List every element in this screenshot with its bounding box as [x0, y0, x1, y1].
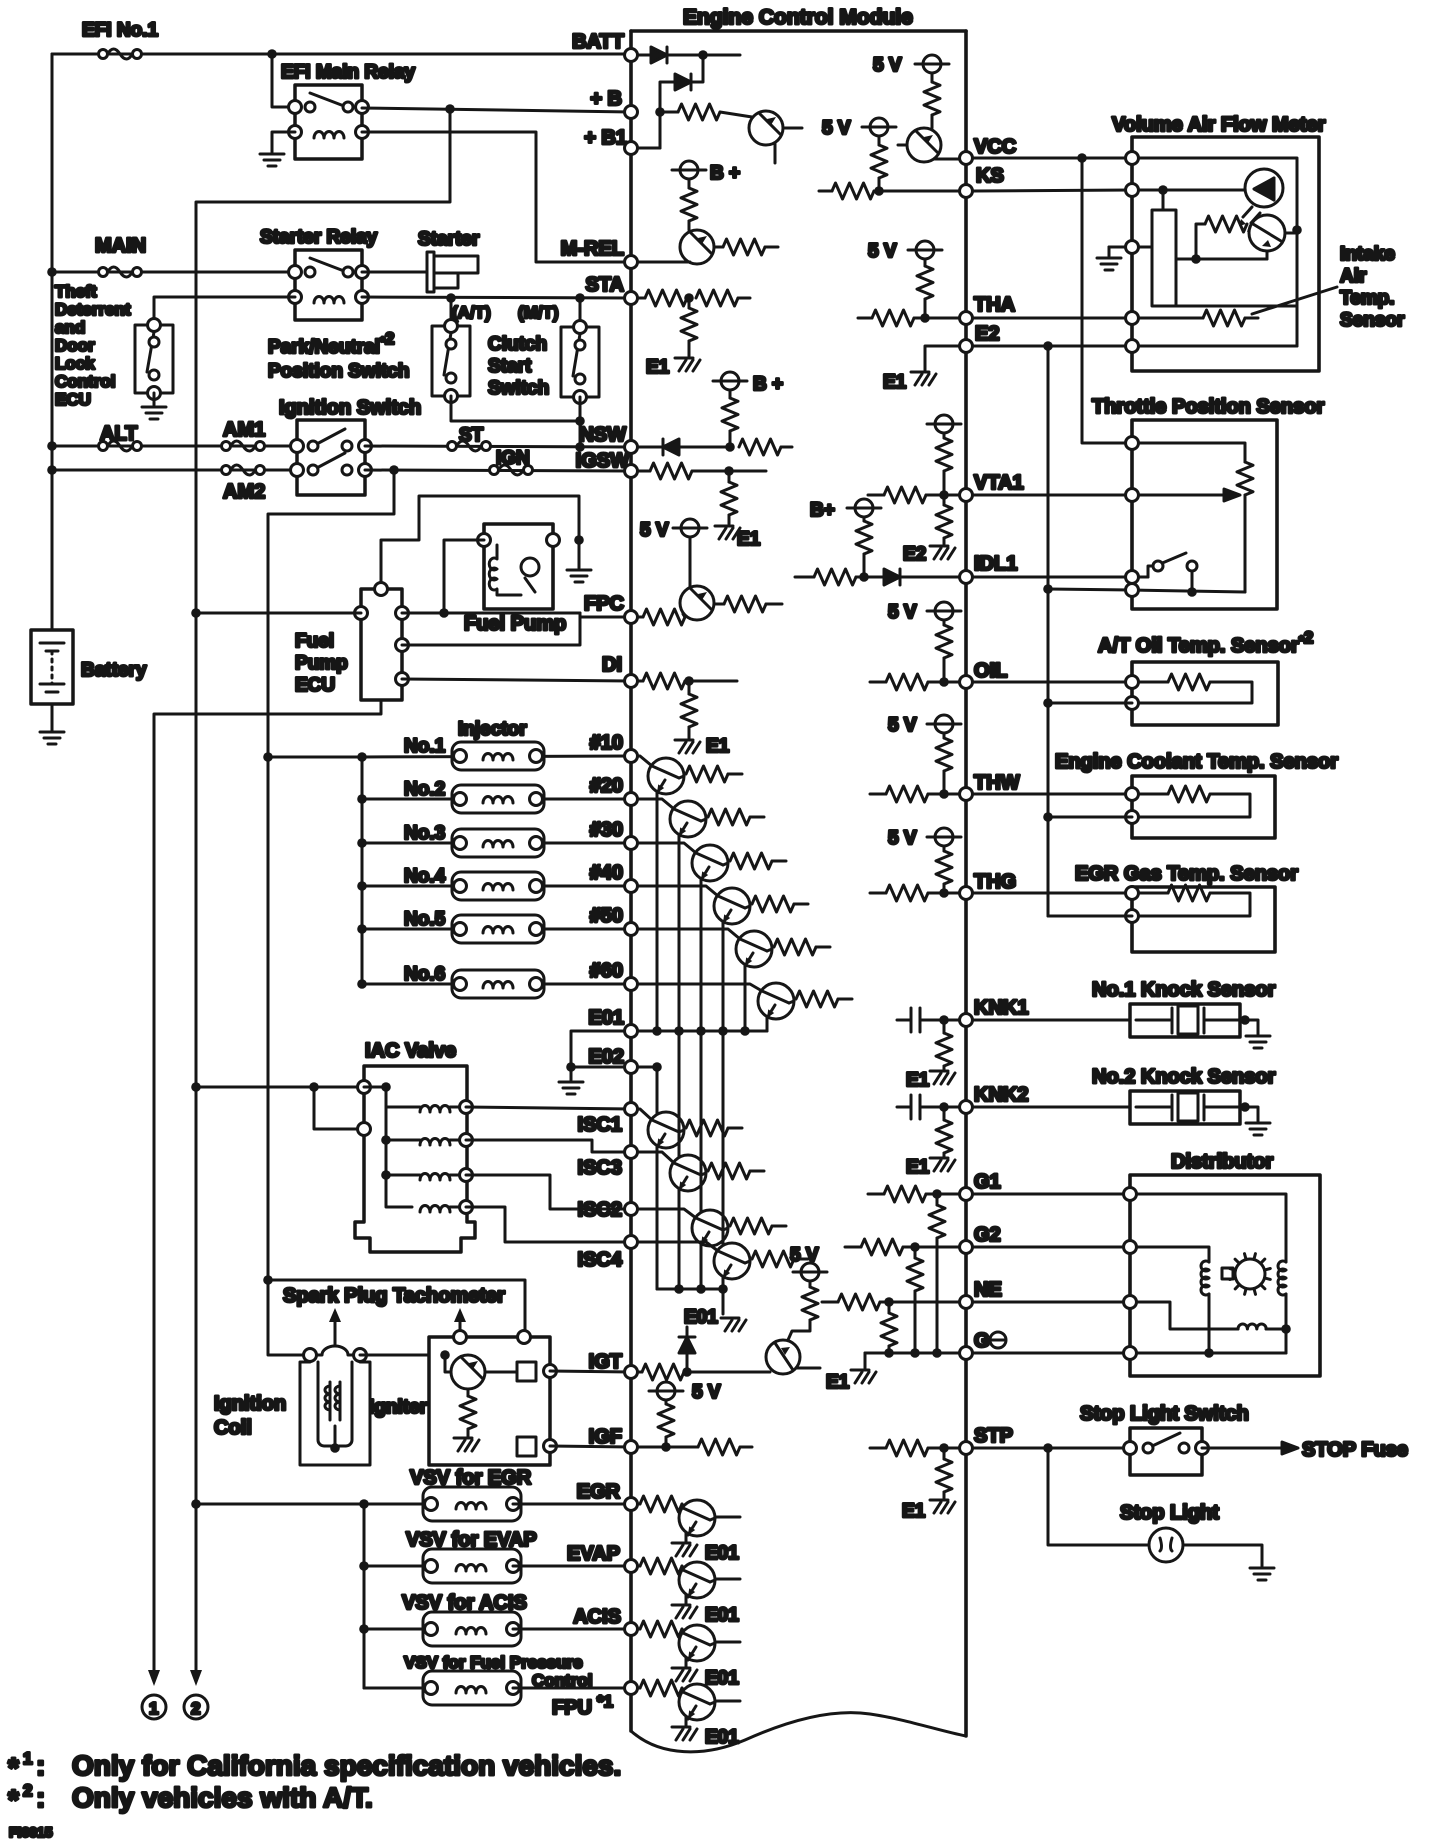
ground knock sensor 2: [1246, 1123, 1270, 1135]
Fuel Pump ECU: [295, 583, 409, 701]
transistor ISC3 driver: [638, 1152, 674, 1163]
wire coolant sensor ground: [1048, 816, 1132, 819]
svg-text:Only for California specificat: Only for California specification vehicl…: [72, 1750, 621, 1781]
wire IAC second pin feed: [314, 1087, 364, 1129]
NE pickup coil bottom: [1238, 1324, 1266, 1329]
svg-text:E1: E1: [906, 1157, 930, 1178]
fuse EFI No.1: [99, 49, 142, 59]
svg-text:(M/T): (M/T): [518, 303, 559, 322]
wire G- row with dividers: [865, 1352, 959, 1355]
injector No.3: [357, 838, 367, 848]
svg-text:NE: NE: [974, 1279, 1002, 1301]
ground E1 (DI): [675, 740, 700, 753]
svg-text:#20: #20: [590, 775, 623, 797]
switch park/neutral: [432, 320, 470, 403]
LED karman sensor: [1245, 169, 1283, 207]
fuse ALT: [99, 441, 142, 451]
svg-text:and: and: [55, 318, 85, 337]
IGT input resistor: [638, 1371, 642, 1374]
node junction IGSW drop: [389, 465, 399, 475]
wire FPC row: [402, 613, 631, 617]
svg-text:Deterrent: Deterrent: [55, 300, 131, 319]
wire EGR VSV feed: [196, 1503, 431, 1506]
transistor injector driver No.5: [638, 929, 740, 939]
svg-text:+ B1: + B1: [584, 127, 627, 149]
svg-text:Sensor: Sensor: [1340, 310, 1405, 331]
svg-text:No.3: No.3: [404, 823, 445, 844]
Starter Relay: [260, 227, 378, 320]
svg-text:B+: B+: [810, 500, 835, 521]
wire G2 row: [973, 1246, 1130, 1249]
node junction STA / clutch: [575, 293, 585, 303]
svg-text:Fuel: Fuel: [295, 631, 334, 652]
NE row resistor: [822, 1301, 838, 1304]
svg-text:AM1: AM1: [223, 419, 265, 441]
svg-text:FPC: FPC: [584, 593, 624, 615]
divider to E2 ground: [943, 495, 946, 505]
svg-text:Temp.: Temp.: [1340, 288, 1395, 309]
Ignition Coil: [214, 1346, 370, 1465]
wire VSV distribution bus: [363, 1504, 366, 1688]
DI input resistor: [638, 680, 643, 683]
svg-text:No.5: No.5: [404, 909, 446, 930]
svg-text:VSV for Fuel Pressure: VSV for Fuel Pressure: [404, 1653, 583, 1672]
svg-text:#60: #60: [590, 960, 623, 982]
svg-text:BATT: BATT: [572, 31, 624, 53]
wire KS row: [973, 190, 1132, 191]
svg-text:B +: B +: [710, 163, 740, 184]
node junction STA / park-neutral: [446, 293, 456, 303]
svg-text:AM2: AM2: [223, 481, 265, 503]
svg-text:B +: B +: [753, 374, 783, 395]
svg-text:KS: KS: [976, 165, 1004, 187]
transistor injector driver No.1: [638, 756, 652, 766]
Volume Air Flow Meter: [1097, 114, 1326, 371]
wire ECU bottom to drop bus no.1: [154, 700, 381, 1670]
wire ISC emitter rail: [657, 1288, 723, 1291]
svg-text:*: *: [8, 1784, 19, 1815]
wire ALT row: [52, 445, 297, 448]
Engine Coolant Temp. Sensor: [1055, 751, 1338, 838]
wire E01 rail: [638, 1030, 767, 1033]
svg-text:VCC: VCC: [974, 136, 1016, 158]
power 5V (VTA1 pullup): [927, 415, 961, 433]
IAC Valve: [355, 1040, 475, 1252]
svg-text:E01: E01: [684, 1307, 718, 1328]
svg-text:Volume Air Flow Meter: Volume Air Flow Meter: [1112, 114, 1326, 136]
ground E1 (G-): [851, 1370, 876, 1383]
wire relay coil to ground: [272, 132, 295, 152]
ground theft ECU: [142, 407, 166, 419]
svg-text:Throttle Position Sensor: Throttle Position Sensor: [1092, 396, 1324, 418]
svg-text:ISC1: ISC1: [578, 1114, 622, 1136]
svg-text:E02: E02: [588, 1046, 624, 1068]
svg-text:STA: STA: [585, 274, 624, 296]
svg-text:1: 1: [149, 1699, 158, 1718]
svg-text:ECU: ECU: [55, 390, 91, 409]
svg-text:ECU: ECU: [295, 675, 335, 696]
wire drop bus no.2 (to circled 2): [196, 109, 450, 1670]
wire EFI No.1 feed (top rail to BATT): [52, 53, 631, 56]
svg-text:Only vehicles with A/T.: Only vehicles with A/T.: [72, 1782, 373, 1813]
wire injector distribution bus: [361, 757, 364, 984]
arrow to circled 1: [148, 1670, 160, 1686]
svg-text:(A/T): (A/T): [452, 303, 491, 322]
tachometer arrow: [459, 1318, 462, 1331]
wire AM2 row: [52, 469, 297, 472]
wire EGR gas sensor ground: [1048, 915, 1132, 918]
svg-text:E01: E01: [705, 1605, 739, 1626]
transistor injector driver No.2: [638, 799, 674, 809]
wire igniter feed: [268, 1280, 525, 1337]
wire fuel pump ground stem: [578, 540, 581, 568]
wire fuel pump left pin to FPC row: [444, 540, 484, 613]
svg-text:Lock: Lock: [55, 354, 95, 373]
transistor EGR driver: [638, 1503, 640, 1506]
Engine Control Module box: [631, 31, 966, 1736]
wire TPS ground: [1048, 589, 1132, 590]
wire E2 to internal ground: [925, 346, 959, 370]
svg-text:Starter Relay: Starter Relay: [260, 227, 378, 248]
svg-text:THG: THG: [974, 871, 1016, 893]
phototransistor: [1249, 215, 1285, 251]
THG row resistor: [870, 892, 886, 895]
wire relay coil to M-REL: [362, 132, 631, 262]
svg-text:Starter: Starter: [418, 229, 480, 250]
VTA1 row resistor: [868, 494, 884, 497]
wire relay output to +B pin: [362, 108, 631, 112]
wire IDL1 row: [973, 576, 1148, 579]
VSV for EVAP: [359, 1561, 369, 1571]
svg-text:*: *: [8, 1752, 19, 1783]
Distributor: [1124, 1151, 1321, 1376]
svg-text:OIL: OIL: [974, 660, 1007, 682]
Igniter: [369, 1331, 557, 1466]
STA input: resistor, divider: [638, 297, 645, 300]
No.2 Knock Sensor: [1092, 1066, 1276, 1124]
svg-text:E1: E1: [883, 372, 907, 393]
resistor +B base: [660, 111, 678, 114]
ground stop light: [1250, 1568, 1274, 1580]
wire STA to clutch switch: [579, 298, 582, 327]
KS row resistor: [819, 190, 832, 193]
wire ECU mid pin: [402, 613, 580, 645]
transistor injector driver No.6: [638, 984, 762, 991]
svg-text:+ B: + B: [590, 88, 622, 110]
svg-text:Engine Coolant Temp. Sensor: Engine Coolant Temp. Sensor: [1055, 751, 1338, 773]
svg-text:5 V: 5 V: [873, 55, 902, 76]
svg-text:EFI No.1: EFI No.1: [82, 20, 158, 41]
svg-text:NSW: NSW: [579, 424, 626, 446]
svg-text:2: 2: [23, 1781, 32, 1800]
wire MAIN row: [52, 271, 295, 274]
svg-text:KNK1: KNK1: [974, 997, 1028, 1019]
EFI Main Relay: [281, 62, 416, 159]
svg-text:No.1 Knock Sensor: No.1 Knock Sensor: [1092, 979, 1276, 1001]
svg-text::: :: [36, 1750, 45, 1781]
svg-text:Ignition: Ignition: [214, 1393, 286, 1415]
wire fuel pump ECU feed from bus 2: [196, 612, 361, 615]
VSV for Fuel Pressure Control: [364, 1687, 431, 1690]
node junction +B feed / left drop bus: [445, 104, 455, 114]
svg-text:Fuel Pump: Fuel Pump: [464, 613, 566, 635]
svg-text:#30: #30: [590, 819, 623, 841]
A/T Oil Temp. Sensor: [1098, 628, 1313, 725]
IDL1 row resistor + diode: [795, 576, 814, 579]
injector No.4: [357, 881, 367, 891]
svg-text:E1: E1: [706, 736, 730, 757]
wire OIL row: [973, 681, 1132, 684]
injector No.2: [357, 794, 367, 804]
transistor ISC1 driver: [638, 1109, 652, 1120]
reluctor star wheel: [1222, 1268, 1233, 1279]
arrow to circled 2: [190, 1670, 202, 1686]
svg-text:*1: *1: [597, 1692, 613, 1711]
fuse AM1: [222, 441, 265, 451]
svg-text:5 V: 5 V: [640, 520, 669, 541]
switch clutch start: [561, 321, 599, 404]
fuse ST: [448, 441, 491, 451]
wire STA row from relay coil: [362, 297, 631, 298]
Stop Light lamp: [1120, 1502, 1219, 1562]
NSW diode (points left): [638, 446, 663, 449]
power B+ (M-REL driver): [672, 161, 706, 179]
wire G- row: [973, 1352, 1130, 1355]
wire VCC drop to TPS: [1082, 158, 1132, 443]
svg-text:Igniter: Igniter: [369, 1397, 428, 1418]
svg-text:Air: Air: [1340, 266, 1367, 287]
wire IGT: [550, 1371, 631, 1372]
wire G1 row: [973, 1193, 1130, 1196]
svg-text::: :: [36, 1782, 45, 1813]
svg-text:E2: E2: [975, 323, 999, 345]
ECM internals: BATT diode 1: [638, 54, 651, 57]
svg-text:Stop Light Switch: Stop Light Switch: [1080, 1403, 1249, 1425]
Stop Light Switch: [1080, 1403, 1249, 1475]
transistor injector driver No.4: [638, 886, 718, 896]
svg-text:Control: Control: [55, 372, 115, 391]
ground E1 (KNK2): [930, 1158, 955, 1171]
node +B junction: [655, 107, 665, 117]
ground E1 (KNK1): [930, 1071, 955, 1084]
svg-text:5 V: 5 V: [888, 828, 917, 849]
svg-text:1: 1: [23, 1749, 32, 1768]
svg-text:E1: E1: [737, 529, 761, 550]
svg-text:G: G: [974, 1330, 990, 1352]
svg-text:M-REL: M-REL: [561, 238, 624, 260]
svg-text:DI: DI: [602, 654, 622, 676]
battery: [31, 630, 147, 732]
transistor VCC regulator: [907, 128, 941, 162]
wire ignition coil to igniter: [360, 1354, 429, 1357]
svg-text:IAC Valve: IAC Valve: [365, 1040, 456, 1062]
svg-text:No.6: No.6: [404, 964, 445, 985]
svg-text:Switch: Switch: [488, 378, 549, 399]
svg-text:Start: Start: [488, 356, 532, 377]
wire NE row: [973, 1301, 1130, 1304]
wire A/T oil sensor ground: [1048, 702, 1132, 705]
IGF row resistor: [638, 1446, 698, 1449]
wire THA row: [973, 317, 1132, 320]
node junction igniter feed: [263, 1275, 273, 1285]
wire starter relay coil left to theft ECU: [154, 297, 295, 325]
svg-text:EVAP: EVAP: [567, 1543, 620, 1565]
svg-text:Battery: Battery: [81, 660, 147, 681]
svg-text:E01: E01: [588, 1007, 624, 1029]
resistor intake air temp sensor: [1203, 310, 1245, 326]
svg-text:ISC2: ISC2: [578, 1199, 622, 1221]
svg-text:No.2: No.2: [404, 779, 445, 800]
svg-text:E01: E01: [705, 1543, 739, 1564]
svg-text:E1: E1: [826, 1372, 850, 1393]
svg-text:Injector: Injector: [458, 719, 527, 740]
wire ISC2: [466, 1175, 631, 1209]
No.1 Knock Sensor: [1092, 979, 1276, 1037]
wire E2 sensor-ground bus: [1047, 346, 1050, 916]
wire THG row: [973, 892, 1132, 895]
svg-text:2: 2: [191, 1699, 200, 1718]
svg-text:Pump: Pump: [295, 653, 348, 674]
transistor IGT driver: [766, 1340, 800, 1374]
wire IGF: [550, 1446, 631, 1447]
svg-text:5 V: 5 V: [888, 715, 917, 736]
G minus symbol: [990, 1332, 1006, 1348]
capacitor KNK2: [897, 1106, 911, 1109]
ground E1 (STP): [930, 1500, 955, 1513]
ECM left edge pin labels: [561, 31, 629, 1628]
svg-text:STOP Fuse: STOP Fuse: [1302, 1439, 1408, 1461]
ground E1 (IGSW): [715, 526, 740, 539]
STP row resistor: [870, 1447, 886, 1450]
wire starter relay to starter: [362, 271, 430, 274]
svg-text:E01: E01: [705, 1727, 739, 1748]
svg-text:Ignition Switch: Ignition Switch: [279, 397, 421, 419]
svg-text:EFI Main Relay: EFI Main Relay: [281, 62, 416, 83]
svg-text:E1: E1: [906, 1070, 930, 1091]
ground E01/E02: [559, 1082, 583, 1094]
Ignition Switch: [279, 397, 421, 495]
wire E02 tie inside: [638, 1066, 657, 1069]
transistor M-REL driver: [680, 230, 714, 264]
svg-text:THW: THW: [974, 772, 1020, 794]
svg-text:EGR Gas Temp. Sensor: EGR Gas Temp. Sensor: [1075, 863, 1298, 885]
ground EFI main relay coil: [260, 154, 284, 166]
svg-text:#50: #50: [590, 905, 623, 927]
wire M-REL emitter: [638, 261, 690, 264]
svg-text:ST: ST: [459, 425, 484, 446]
svg-text:IGT: IGT: [589, 1351, 622, 1373]
wire stop light branch: [1048, 1448, 1149, 1545]
circled 1: [142, 1695, 166, 1719]
transistor ACIS driver: [638, 1628, 640, 1631]
injector No.1: [362, 756, 631, 757]
svg-text:Coil: Coil: [214, 1417, 252, 1439]
svg-text:THA: THA: [974, 294, 1015, 316]
svg-text:FPU: FPU: [552, 1697, 592, 1719]
FPC input resistor + transistor: [638, 616, 643, 619]
wire IAC feed from bus 2: [196, 1086, 364, 1089]
svg-text:KNK2: KNK2: [974, 1084, 1028, 1106]
svg-text:ISC4: ISC4: [578, 1249, 623, 1271]
Throttle Position Sensor: [973, 396, 1324, 609]
transistor EVAP driver: [638, 1565, 640, 1568]
wire KNK2 row: [973, 1106, 1130, 1109]
wire P/N + clutch bottoms to NSW: [451, 396, 580, 421]
svg-text:E1: E1: [646, 357, 670, 378]
transistor FPU driver: [638, 1687, 640, 1690]
svg-text:Position Switch: Position Switch: [268, 361, 409, 382]
pickup coil left (G2): [1201, 1261, 1209, 1295]
Fuel Pump: [464, 524, 566, 635]
circled 2: [184, 1695, 208, 1719]
svg-text:FI6915: FI6915: [9, 1824, 53, 1840]
wire drop to fuel pump ECU feed bus: [268, 470, 394, 1355]
svg-text:G2: G2: [974, 1224, 1001, 1246]
ground E1 (E2 pin): [911, 372, 936, 385]
svg-text:IGF: IGF: [589, 1426, 622, 1448]
ECM bottom break (wavy cut line): [631, 1713, 966, 1752]
wire relay feed drop: [272, 54, 295, 107]
capacitor KNK1: [897, 1019, 911, 1022]
svg-text:#40: #40: [590, 862, 623, 884]
svg-text:Engine Control Module: Engine Control Module: [683, 6, 913, 29]
svg-text:5 V: 5 V: [888, 602, 917, 623]
OIL row resistor: [870, 681, 886, 684]
G2 row resistor: [845, 1246, 861, 1249]
svg-text:Clutch: Clutch: [488, 334, 547, 355]
wire stop light to ground: [1183, 1545, 1262, 1566]
fuse IGN: [490, 465, 533, 475]
svg-text:No.2 Knock Sensor: No.2 Knock Sensor: [1092, 1066, 1276, 1088]
wire ISC1: [466, 1107, 631, 1109]
node junction EFI rail to relay: [267, 49, 277, 59]
svg-text:VTA1: VTA1: [974, 472, 1024, 494]
transistor ISC2 driver: [638, 1209, 696, 1218]
THW row resistor: [870, 793, 886, 796]
wire ST row to NSW: [365, 446, 631, 447]
wire E2 row: [973, 345, 1132, 348]
wire injector feed from bus: [268, 756, 362, 759]
svg-text:E01: E01: [705, 1668, 739, 1689]
transistor injector driver No.3: [638, 843, 696, 853]
VSV for ACIS: [359, 1624, 369, 1634]
wire +B1 tie: [638, 147, 660, 150]
svg-text:5 V: 5 V: [868, 241, 897, 262]
pickup coil right (G1): [1278, 1261, 1286, 1295]
ground E01 (ISC): [721, 1318, 746, 1331]
wire THW row: [973, 793, 1132, 796]
svg-text:Intake: Intake: [1340, 244, 1395, 265]
wire ISC4: [466, 1207, 631, 1242]
ECM left edge pins: [625, 49, 638, 1695]
svg-text:G1: G1: [974, 1171, 1001, 1193]
ECM right edge pin labels: [974, 136, 1028, 1447]
svg-text:E2: E2: [903, 544, 926, 565]
idle switch: [1148, 566, 1155, 577]
G1 row resistor: [868, 1193, 884, 1196]
svg-text:No.1: No.1: [404, 736, 446, 757]
node junction fuel pump right: [574, 535, 584, 545]
wire STA to P/N switch: [450, 298, 453, 326]
resistor M-REL collector feed: [688, 179, 691, 188]
power B+ (NSW pullup): [713, 372, 747, 390]
ECM right edge pins: [960, 152, 973, 1455]
leader line intake air temp: [1252, 287, 1337, 314]
svg-text:EGR: EGR: [577, 1481, 621, 1503]
IGSW input resistor: [638, 470, 650, 473]
fuse MAIN: [99, 267, 142, 277]
Theft Deterrent and Door Lock Control ECU: [55, 282, 173, 409]
